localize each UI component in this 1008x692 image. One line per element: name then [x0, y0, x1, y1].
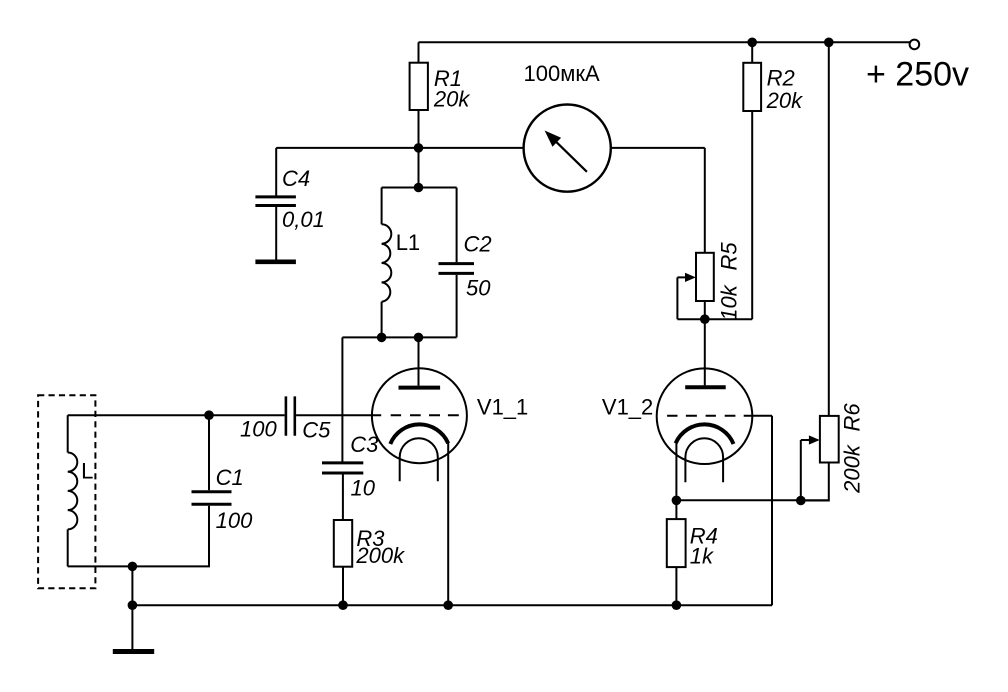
V1_2 heater: [685, 438, 723, 482]
wire C4 branch horizontal corner: [275, 148, 277, 196]
wire cathode node to R4: [675, 500, 677, 519]
junction node tank bottom L1: [377, 333, 387, 343]
wire C4 to ground bar: [275, 207, 277, 260]
wire top supply rail: [419, 41, 910, 43]
wire input node to C5: [209, 414, 285, 416]
svg-text:20k: 20k: [766, 88, 803, 113]
svg-text:0,01: 0,01: [282, 207, 325, 232]
svg-text:C1: C1: [216, 465, 244, 490]
capacitor C2 plates: [439, 264, 475, 274]
wire L1 branch bottom: [381, 302, 383, 338]
junction node bus R3: [338, 600, 348, 610]
wire R3 to bus: [342, 567, 344, 606]
terminal +250v: [910, 40, 920, 50]
svg-text:200k: 200k: [840, 444, 865, 494]
V1_1 heater: [400, 438, 438, 481]
svg-text:C4: C4: [282, 166, 310, 191]
wire ground stem: [131, 605, 133, 650]
wire node B to V1_2 anode lead: [704, 319, 706, 385]
V1_1 anode plate: [399, 386, 441, 390]
wire L coil top lead: [67, 415, 69, 452]
inductor L1 coil: [382, 224, 392, 301]
resistor R2: [743, 63, 761, 111]
wire cathode node horizontal to R6 bottom: [676, 499, 828, 501]
svg-text:R5: R5: [716, 242, 741, 271]
junction node L bottom: [128, 562, 138, 572]
R6 wiper arrowhead: [809, 435, 820, 444]
junction node bus V1_1 cathode: [443, 600, 453, 610]
ground symbol C4: [255, 259, 296, 264]
wire V1_1 cathode lead: [447, 443, 449, 606]
wire feedback branch to C3: [341, 337, 343, 461]
wire node B horizontal: [677, 318, 752, 320]
meter needle: [556, 142, 587, 172]
svg-text:100: 100: [240, 417, 277, 442]
wire L bottom to C1 bottom corner: [68, 506, 209, 567]
wire tank top: [382, 187, 457, 189]
svg-text:L1: L1: [396, 230, 420, 255]
wire C3 to R3: [342, 475, 344, 521]
wire R6 wiper: [801, 440, 810, 501]
svg-text:50: 50: [466, 276, 491, 301]
wire C5 to V1_1 grid (solid part): [296, 414, 381, 416]
wire input node to L top: [68, 414, 209, 416]
svg-text:V1_1: V1_1: [477, 395, 528, 420]
wire R2 bottom to node B corner: [751, 111, 753, 319]
potentiometer R5 body: [696, 253, 714, 301]
svg-text:100мкА: 100мкА: [524, 61, 600, 86]
V1_1 cathode arc: [390, 424, 448, 444]
V1_1 grid dashed line: [391, 414, 459, 416]
svg-text:+ 250v: + 250v: [866, 56, 969, 94]
svg-text:20k: 20k: [433, 86, 470, 111]
potentiometer R6 body: [820, 416, 839, 463]
wire L1 branch top: [381, 188, 383, 225]
inductor L coil: [68, 452, 78, 529]
wire C2 branch bottom: [456, 275, 458, 338]
meter needle arrowhead: [545, 131, 562, 147]
wire R1 bottom to node A: [418, 110, 420, 148]
wire L node down to bus: [131, 566, 133, 605]
ground symbol main: [113, 649, 154, 654]
svg-text:200k: 200k: [355, 543, 405, 568]
wire R5 bottom to node B: [704, 301, 706, 319]
junction node V1_2 cathode: [672, 496, 682, 506]
svg-text:V1_2: V1_2: [602, 395, 653, 420]
junction node top rail R2: [747, 38, 757, 48]
capacitor C4 plates: [255, 197, 296, 206]
junction node R6 wiper: [796, 496, 806, 506]
meter M1 100uA circle: [524, 105, 611, 192]
resistor R1: [410, 63, 428, 110]
wire R2 top branch: [751, 42, 753, 63]
wire V1_2 grid solid part: [754, 415, 772, 417]
wire R1 top branch: [418, 42, 420, 62]
wire R6 bottom corner to wiper node: [801, 463, 829, 501]
svg-text:100: 100: [216, 508, 253, 533]
R5 wiper arrowhead: [685, 273, 696, 282]
junction node B (R5 bottom): [700, 314, 710, 324]
wire corner down to R5 top: [704, 148, 706, 253]
svg-text:R6: R6: [840, 403, 865, 432]
wire L coil bottom lead: [67, 529, 69, 566]
V1_2 anode plate: [685, 385, 726, 389]
capacitor C1 plates: [192, 492, 232, 505]
junction node bus ground: [128, 600, 138, 610]
junction node A (R1 bottom): [414, 143, 424, 153]
capacitor C3 plates: [322, 463, 363, 473]
wire node A to tank top node: [418, 148, 420, 188]
svg-text:C5: C5: [302, 418, 331, 443]
junction node tank bottom anode: [414, 333, 424, 343]
svg-text:1k: 1k: [690, 543, 714, 568]
junction node bus R4: [672, 600, 682, 610]
wire V1_1 anode lead: [418, 337, 420, 385]
capacitor C5 plates: [286, 396, 295, 435]
V1_2 grid dashed line: [667, 415, 754, 417]
V1_2 cathode arc: [676, 424, 734, 444]
svg-text:C3: C3: [350, 432, 379, 457]
wire R6 top branch: [828, 42, 830, 416]
wire R4 to bus: [675, 567, 677, 605]
wire meter right to corner: [611, 147, 705, 149]
tube V1_1 envelope: [372, 368, 467, 463]
wire bottom bus: [132, 604, 772, 606]
wire node A horizontal (C4 to meter): [276, 147, 523, 149]
resistor R3: [334, 520, 352, 567]
resistor R4: [667, 519, 686, 567]
svg-text:10k: 10k: [716, 284, 741, 320]
wire R5 wiper: [677, 277, 687, 319]
junction node tank top: [414, 183, 424, 193]
wire bus corner up to V1_2 grid: [771, 416, 773, 606]
wire C2 branch top: [456, 188, 458, 263]
wire V1_2 cathode lead: [675, 443, 677, 500]
svg-text:10: 10: [351, 476, 376, 501]
svg-text:L: L: [81, 459, 93, 484]
svg-text:C2: C2: [464, 231, 492, 256]
dashed box around L: [38, 395, 95, 588]
junction node top rail R6: [824, 38, 834, 48]
wire tank bottom: [342, 336, 456, 338]
junction node input (C1 top): [204, 410, 214, 420]
wire C1 top stem: [208, 415, 210, 490]
tube V1_2 envelope: [657, 368, 753, 464]
